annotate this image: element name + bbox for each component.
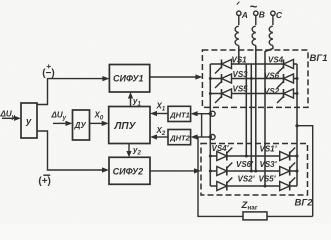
wire input dUy arrow <box>2 116 21 121</box>
amplifier U1 (block У) <box>21 103 37 138</box>
wire phase C jog down to VG2 row3 <box>265 46 273 186</box>
thyristor VS6 <box>277 74 294 88</box>
node (minus-plus) label <box>38 176 51 187</box>
node tick above A <box>237 2 240 5</box>
wire У to СИФУ2 (bottom branch) <box>37 131 109 173</box>
current sensor DNT1 (block ДНТ1) <box>168 106 191 121</box>
wire load bottom right <box>267 215 313 217</box>
inductor coil phase C <box>269 16 273 46</box>
wire load bottom left <box>198 137 243 216</box>
VG2 dashed enclosure <box>201 144 308 196</box>
thyristor VS6' <box>217 163 233 176</box>
thyristor VS5' <box>280 178 296 191</box>
pulse unit SIFU1 (block СИФУ1) <box>109 65 149 93</box>
comparator DU (block ДУ) <box>73 110 90 140</box>
wire VG1 row 3 <box>210 93 297 95</box>
wire right bus branch to load <box>297 126 313 217</box>
wire sensor tap to ДНТ2 <box>191 134 211 139</box>
thyristor VS1' <box>280 148 296 161</box>
wire СИФУ2 output to ВГ2 <box>150 168 201 173</box>
wire link L1 VG1 row1 to VG2 row1 <box>245 64 247 156</box>
wire X1 arrow ДНТ1 to ЛПУ <box>150 111 168 116</box>
thyristor VS2 <box>277 89 294 103</box>
wire VG2 row 3 <box>210 185 297 187</box>
thyristor VS2' <box>217 178 233 191</box>
current sensor ring 1 <box>209 111 216 116</box>
wire sensor tap to ДНТ1 <box>191 111 211 116</box>
thyristor VS4' <box>217 148 233 161</box>
wire X0 arrow to ЛПУ <box>90 121 109 126</box>
inductor coil phase B <box>252 16 256 46</box>
wire VG2 row 1 <box>210 155 297 157</box>
node terminal B <box>254 11 258 15</box>
thyristor VS4 <box>277 60 294 74</box>
wire У to СИФУ1 (top branch) <box>37 76 109 105</box>
current sensor ring 2 <box>209 135 216 140</box>
wire X2 arrow ДНТ2 to ЛПУ <box>150 134 168 139</box>
current sensor DNT2 (block ДНТ2) <box>168 130 191 145</box>
logic unit LPU (block ЛПУ) <box>109 107 150 144</box>
VG1 dashed enclosure <box>202 50 308 107</box>
wire Y2 arrow ЛПУ to СИФУ2 <box>126 144 131 158</box>
wire VG1 left bus <box>209 64 211 186</box>
node terminal A <box>237 11 241 15</box>
wire dUy arrow to ДУ <box>53 121 73 126</box>
wire VG1 row 2 <box>210 78 297 80</box>
wire СИФУ1 output to ВГ1 <box>150 74 203 79</box>
wire VG1 right bus <box>296 64 298 186</box>
wire link L2 VG1 row1 to VG2 row2 <box>250 64 252 171</box>
junction dots <box>209 77 299 188</box>
node (plus-minus) label <box>42 61 55 79</box>
wire phase B down to VG2 row2 <box>255 46 257 171</box>
wire phase A down to VG1 row1 <box>238 46 240 64</box>
wire link between sensor taps <box>201 114 203 137</box>
wire VG2 row 2 <box>210 170 297 172</box>
inductor coil phase A <box>235 16 239 46</box>
thyristor VS1 <box>215 60 232 74</box>
thyristor VS3' <box>280 163 296 176</box>
pulse unit SIFU2 (block СИФУ2) <box>109 157 150 184</box>
thyristor VS3 <box>215 74 232 88</box>
thyristor VS5 <box>215 89 232 103</box>
node terminal C <box>271 11 275 15</box>
wire Y1 arrow ЛПУ to СИФУ1 <box>128 92 133 107</box>
load Znag <box>241 200 268 220</box>
wire VG1 row 1 <box>210 63 297 65</box>
